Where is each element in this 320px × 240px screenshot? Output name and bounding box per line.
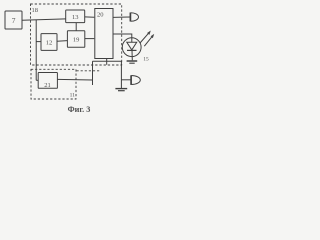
svg-text:Фиг. 3: Фиг. 3 [68,105,91,114]
wire box19 to box20 [85,38,95,40]
wire vertical to ground [120,61,122,88]
svg-text:15: 15 [143,56,149,62]
wire box20 to bell HA1 [113,16,130,18]
bell HA2 flat bar [130,75,132,85]
wire box12 to box19 [57,40,67,43]
wire box20 to LED [113,34,132,38]
svg-text:21: 21 [44,82,51,89]
wire to bell HA2 [121,79,130,81]
wire under box 20 to right net [93,60,122,62]
svg-text:20: 20 [97,12,104,19]
wire junction vertical [35,20,37,80]
svg-text:12: 12 [46,40,53,47]
svg-text:11: 11 [70,93,76,99]
wire box7 to box13 [22,19,66,20]
ground bar long [115,88,127,90]
wire box21 output [57,78,92,81]
box 21 [38,73,57,89]
LED triangle [127,42,137,50]
dashed boundary extension right of box 11 [77,70,100,72]
wire box13 to box20 [85,16,95,18]
box 12 [41,34,57,51]
wire stub to box12 [36,41,41,43]
bell HA1 arc [131,13,139,22]
ground bar short [118,90,125,92]
arrowhead LED arrow 1 [147,31,151,35]
svg-text:18: 18 [31,7,38,14]
LED cathode lead [131,50,133,60]
box 13 [66,10,85,23]
LED anode lead [131,38,133,42]
box 7 [5,11,22,29]
box 20 [95,9,113,59]
dashed box 18 [31,4,122,65]
svg-text:7: 7 [12,16,16,25]
wire stub below box20 [106,59,108,65]
LED ground bar [127,60,138,62]
box 19 [67,31,84,48]
wire stub to box21 [36,79,38,81]
bell HA2 arc [131,76,140,85]
arrowhead LED arrow 2 [151,34,155,38]
svg-text:13: 13 [72,14,79,21]
LED ground bar short [129,62,134,64]
LED cathode bar [127,49,137,51]
wire riser at x=92.5 [92,61,94,85]
bell HA1 flat bar [129,13,131,22]
LED VD circle [122,38,141,57]
LED light arrow 2 [144,35,153,46]
wire box13 to box19 [75,23,77,31]
LED light arrow 1 [140,32,150,43]
dashed box 11 [31,69,76,99]
svg-text:19: 19 [73,37,80,44]
